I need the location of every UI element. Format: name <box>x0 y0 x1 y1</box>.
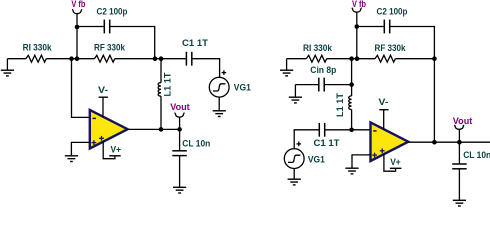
wire Vfb stem down (left) <box>76 14 78 59</box>
wire inverting branch down and into op-amp <box>72 59 90 118</box>
label + polarity VG1 (left) <box>222 70 227 75</box>
junction Vfb/C2 branch (right) <box>355 24 360 29</box>
svg-text:VG1: VG1 <box>308 155 325 165</box>
svg-text:V-: V- <box>98 85 108 95</box>
wire output row (right) <box>408 141 490 143</box>
ground G4 below CL (left) <box>173 187 186 193</box>
op-amp U1 (left) <box>90 97 128 158</box>
inductor L1 (right) coil <box>349 96 352 110</box>
capacitor C2 (left) plates <box>104 20 109 34</box>
ground G3 at noninverting input (left) <box>65 156 78 162</box>
wire Vfb stem down (right) <box>356 12 358 59</box>
svg-text:C1 1T: C1 1T <box>314 138 340 148</box>
inductor L1 (left) wire top <box>160 59 162 83</box>
ground G7 below VG1 (right) <box>288 179 301 185</box>
junction RF at rail (right) <box>432 56 437 61</box>
wire Vout stem <box>179 117 181 129</box>
svg-text:Vout: Vout <box>170 102 190 112</box>
wire main row RI to RF (right) <box>327 58 375 60</box>
ground G5 left of RI (right) <box>280 59 293 76</box>
svg-text:Cin 8p: Cin 8p <box>310 65 336 75</box>
resistor RF 330k (right) <box>375 55 395 62</box>
wire output row (left) <box>128 128 180 130</box>
capacitor C1 (right) plates <box>319 123 324 137</box>
ground G9 below CL (right) <box>453 200 466 206</box>
wire VG1 up to C1 row (right) <box>294 130 319 149</box>
ground G6 left of Cin <box>289 85 302 103</box>
svg-text:CL 10n: CL 10n <box>463 150 490 160</box>
junction inverting branch <box>69 56 74 61</box>
wire main row RF to C1 <box>115 58 186 60</box>
ground G1 left of RI <box>1 59 14 76</box>
junction L1 bottom at output row <box>159 127 164 132</box>
wire C2 branch right segment and rail down (right) <box>390 27 434 143</box>
wire main row RF to rail (right) <box>395 58 434 60</box>
wire noninverting input to ground <box>71 142 89 155</box>
junction L1 bottom at inverting row (right) <box>349 128 354 133</box>
junction Vfb/C2 branch (left) <box>75 25 80 30</box>
inductor L1 (right) wire top <box>351 59 353 96</box>
label + polarity VG1 (right) <box>297 142 302 147</box>
op-amp U2 (right) <box>371 110 409 171</box>
capacitor Cin 8p plates <box>319 78 324 92</box>
svg-text:CL 10n: CL 10n <box>182 139 210 149</box>
wire main row before RI <box>7 58 26 60</box>
wire C2 branch left segment (right) <box>357 26 384 28</box>
svg-text:V-: V- <box>378 97 388 107</box>
wire Vout stem (right) <box>458 129 460 142</box>
junction L1 top at main row (right) <box>349 56 354 61</box>
svg-text:RF 330k: RF 330k <box>375 43 407 53</box>
inductor L1 (left) coil <box>158 83 161 97</box>
svg-text:RI 330k: RI 330k <box>303 43 333 53</box>
wire main row before RI (right) <box>287 58 307 60</box>
wire CL bottom stub (right) <box>458 169 460 200</box>
svg-text:VG1: VG1 <box>234 82 251 92</box>
svg-text:V fb: V fb <box>352 0 366 9</box>
capacitor CL 10n (right) plates <box>452 164 467 169</box>
inductor L1 (left) wire bottom <box>160 96 162 129</box>
wire CL top stub (left) <box>179 129 181 150</box>
wire C2 branch left segment <box>77 26 104 28</box>
source VG1 (right) <box>284 149 304 169</box>
svg-text:V+: V+ <box>111 145 122 155</box>
junction Vfb stem at main row (right) <box>355 56 360 61</box>
junction rail at output row (right) <box>432 140 437 145</box>
wire noninverting input to ground (right) <box>352 155 371 168</box>
junction Vout/CL at output row (right) <box>457 140 462 145</box>
wire Cin row left segment <box>295 84 318 86</box>
resistor RF 330k (left) <box>94 55 114 62</box>
svg-text:RF 330k: RF 330k <box>94 43 126 53</box>
svg-text:C2 100p: C2 100p <box>97 6 128 16</box>
terminal Vout cup symbol (right) <box>454 125 464 129</box>
wire C2 branch right segment and corner down <box>110 27 155 59</box>
junction C2 leg at main row <box>153 56 158 61</box>
terminal Vout cup symbol (left) <box>175 113 185 117</box>
ground G8 at noninverting input (right) <box>345 168 358 174</box>
wire CL top stub (right) <box>458 142 460 163</box>
resistor RI 330k (right) <box>306 55 326 62</box>
wire main row RI to RF <box>46 58 94 60</box>
inductor L1 (right) wire bottom <box>351 110 353 130</box>
wire C1 to VG1 corner <box>192 59 219 78</box>
wire VG1 to ground stub <box>218 97 220 111</box>
capacitor C2 (right) plates <box>384 20 389 34</box>
wire VG1 to ground stub (right) <box>293 169 295 179</box>
svg-text:L1 1T: L1 1T <box>335 93 345 117</box>
junction Vfb stem at main row <box>75 56 80 61</box>
wire C1 to op-amp inverting input (right) <box>325 129 370 131</box>
svg-text:V fb: V fb <box>71 0 85 9</box>
terminal Vfb cup symbol (left) <box>72 9 82 13</box>
svg-text:RI 330k: RI 330k <box>23 43 53 53</box>
junction L1 top at main row <box>159 56 164 61</box>
capacitor CL 10n (left) plates <box>172 151 187 156</box>
terminal Vfb cup symbol (right) <box>352 8 362 12</box>
wire CL bottom stub (left) <box>179 156 181 187</box>
svg-text:C1 1T: C1 1T <box>182 38 208 48</box>
junction Vout/CL at output row <box>177 127 182 132</box>
svg-text:L1 1T: L1 1T <box>163 72 173 96</box>
source VG1 (left) <box>209 77 229 97</box>
junction Cin at L1 branch <box>349 82 354 87</box>
svg-text:Vout: Vout <box>453 116 473 126</box>
resistor RI 330k (left) <box>26 55 46 62</box>
capacitor C1 (left) plates <box>186 52 191 66</box>
wire Cin row right segment <box>325 84 352 86</box>
svg-text:V+: V+ <box>390 157 401 167</box>
svg-text:C2 100p: C2 100p <box>377 6 408 16</box>
ground G2 below VG1 (left) <box>213 111 226 117</box>
